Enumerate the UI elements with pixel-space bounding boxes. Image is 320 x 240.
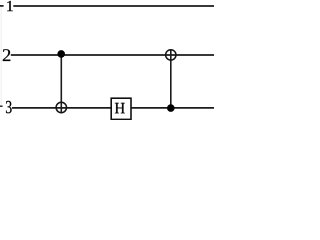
CNOT1 target circle on q3 — [56, 102, 66, 112]
qubit label 3 — [6, 101, 12, 113]
wire q1 left stub — [0, 5, 4, 7]
faint left border line — [0, 6, 2, 107]
wire q1 — [13, 5, 214, 7]
H gate label — [115, 103, 125, 113]
CNOT2 vertical connector — [170, 50, 172, 108]
CNOT2 target circle on q2 — [166, 50, 176, 60]
qubit label 1 — [7, 1, 13, 11]
CNOT2 control dot on q3 — [167, 104, 175, 112]
CNOT1 vertical connector — [60, 54, 62, 113]
H gate box on q3 — [111, 98, 131, 119]
wire q2 — [11, 54, 214, 56]
CNOT1 control dot on q2 — [57, 50, 65, 58]
wire q3 — [12, 107, 214, 109]
qubit label 2 — [3, 49, 11, 61]
wire q3 left stub — [0, 105, 3, 107]
